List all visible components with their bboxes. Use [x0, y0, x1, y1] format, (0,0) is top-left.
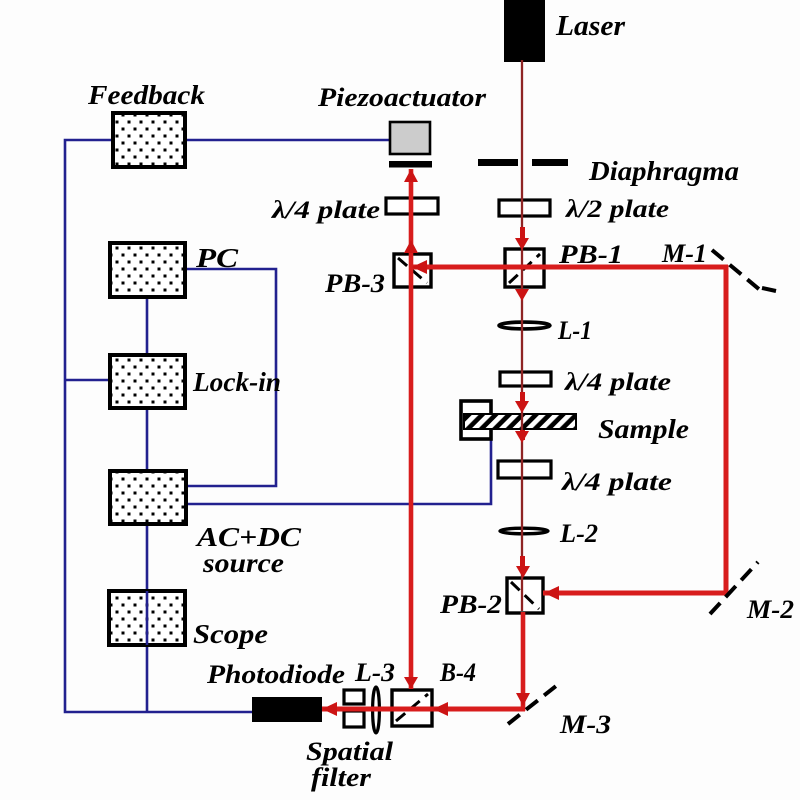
svg-text:PB-2: PB-2 [439, 590, 502, 619]
wire through scope [146, 591, 149, 645]
svg-text:Piezoactuator: Piezoactuator [317, 83, 487, 112]
sample hatched bar [464, 414, 576, 429]
beam M-2 to PB-2 horizontal [543, 591, 728, 596]
diaphragma right blade [532, 159, 568, 166]
half-wave plate [499, 200, 550, 216]
svg-text:Spatial: Spatial [306, 737, 394, 766]
beamsplitter PB-2 [507, 578, 543, 613]
svg-text:Scope: Scope [193, 619, 268, 649]
svg-text:L-3: L-3 [354, 658, 395, 687]
arrow left into PB-2 [544, 586, 559, 600]
quarter-wave plate upper-left [386, 198, 438, 214]
svg-text:Photodiode: Photodiode [206, 660, 345, 689]
arrow down above B-4 [404, 677, 418, 689]
mirror M-3 [508, 686, 556, 724]
arrow down above PB-1 with stem [520, 227, 525, 239]
svg-text:Diaphragma: Diaphragma [588, 156, 739, 186]
svg-text:L-1: L-1 [557, 316, 592, 345]
svg-text:filter: filter [311, 763, 372, 792]
spatial filter lower square [344, 711, 364, 727]
mirror M-2 [710, 562, 758, 614]
wire lock-in to AC+DC source [146, 407, 149, 472]
svg-text:λ/4 plate: λ/4 plate [271, 197, 380, 224]
wire PC to AC+DC source right loop [184, 269, 276, 486]
svg-text:M-1: M-1 [661, 239, 707, 268]
beam PB-1 down to PB-2 [521, 250, 523, 611]
wire AC+DC source down to bottom bus [146, 523, 149, 712]
wire feedback to piezoactuator [184, 139, 391, 142]
lens L-2 [500, 528, 548, 534]
svg-text:Laser: Laser [555, 10, 626, 42]
laser housing [504, 0, 545, 62]
box Feedback [113, 113, 185, 167]
quarter-wave plate mid [500, 372, 551, 386]
spatial filter upper square [344, 690, 364, 704]
svg-text:Sample: Sample [598, 414, 689, 444]
arrow left near PB-3 [412, 260, 427, 274]
box Lock-in [110, 355, 185, 408]
box AC+DC source [110, 471, 186, 524]
piezoactuator body [390, 122, 430, 154]
svg-text:PB-3: PB-3 [324, 269, 385, 298]
wire PC to lock-in [146, 296, 149, 356]
arrow down above sample [520, 392, 525, 402]
beam laser to PB-1 [521, 60, 523, 250]
wire AC+DC source to sample [185, 428, 491, 504]
svg-text:λ/4 plate: λ/4 plate [561, 469, 672, 496]
svg-text:Feedback: Feedback [87, 80, 206, 110]
svg-text:λ/2 plate: λ/2 plate [565, 196, 669, 223]
arrow left into photodiode [322, 702, 337, 716]
arrow down below PB-1 [515, 289, 529, 301]
photodiode [252, 697, 322, 722]
beamsplitter B-4 [392, 690, 432, 726]
arrow down above PB-2 with stem [520, 556, 525, 568]
box PC [110, 243, 185, 297]
arrow down above M-3 [516, 693, 530, 706]
lens L-1 [499, 322, 550, 329]
svg-text:B-4: B-4 [439, 658, 476, 687]
mirror M-1 [712, 250, 760, 290]
svg-text:Lock-in: Lock-in [192, 367, 281, 397]
svg-text:PC: PC [195, 243, 239, 273]
lens L-3 [373, 687, 380, 733]
arrow left right of B-4 [433, 702, 448, 716]
beam M-3 to photodiode horizontal [322, 707, 525, 712]
arrow up above PB-3 [404, 240, 418, 253]
wire feedback-left to photodiode bus [65, 140, 254, 712]
beamsplitter PB-1 [505, 249, 544, 287]
diaphragma left blade [478, 159, 518, 166]
arrow up at piezo mirror [404, 169, 418, 182]
svg-text:λ/4 plate: λ/4 plate [564, 369, 671, 396]
beam M-1 to M-2 vertical [724, 265, 729, 595]
beam PB-2 to M-3 vertical [521, 612, 526, 711]
svg-text:source: source [202, 548, 284, 578]
quarter-wave plate lower [498, 461, 551, 478]
beamsplitter PB-3 [394, 254, 431, 287]
sample holder [461, 401, 491, 439]
beam piezo to B-4 vertical [409, 169, 414, 689]
piezoactuator mirror bar [389, 161, 432, 168]
svg-text:M-2: M-2 [746, 595, 794, 624]
beam PB-3 to M-1 horizontal [409, 265, 728, 270]
svg-text:M-3: M-3 [559, 710, 611, 739]
arrow down below sample [520, 430, 525, 440]
svg-text:PB-1: PB-1 [558, 240, 623, 269]
wire lock-in left stub [65, 379, 111, 382]
svg-text:L-2: L-2 [559, 519, 598, 548]
box Scope [109, 591, 185, 645]
